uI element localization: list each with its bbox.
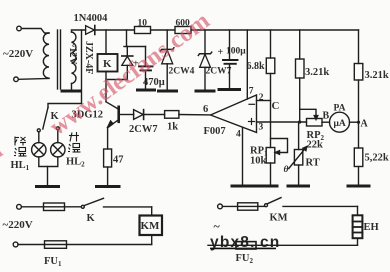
meter PA uA [330, 112, 350, 132]
hanzi 降温 (cool) [14, 137, 27, 157]
terminal T1 (220V top) [17, 26, 22, 31]
wire op-amp pin7 [246, 30, 248, 99]
svg-text:EH: EH [364, 222, 379, 233]
svg-text:10k: 10k [250, 156, 267, 167]
heater EH [357, 206, 359, 215]
capacitor C2 100u [229, 30, 231, 60]
wire AC drop to lamp switch [81, 30, 83, 104]
ground (secondary bottom) [71, 84, 73, 91]
resistor R5 3.21k right [358, 30, 360, 64]
transformer T primary [43, 33, 49, 78]
svg-text:~220V: ~220V [3, 48, 33, 60]
terminal T3 [17, 204, 22, 209]
relay coil K (JZX-4F) [98, 54, 118, 72]
ground (lamps) [37, 185, 59, 188]
svg-text:+: + [218, 47, 224, 58]
switch K1 (lamp selector) [48, 104, 82, 108]
fuse FU2 [236, 242, 256, 249]
wire bottom-left return [67, 244, 152, 246]
svg-text:7: 7 [249, 87, 254, 97]
ground (RP1) [256, 185, 277, 188]
svg-text:6: 6 [203, 104, 208, 115]
capacitor C1 470u [145, 47, 147, 67]
svg-text:10: 10 [138, 19, 148, 29]
svg-text:C: C [272, 100, 280, 112]
svg-text:FU1: FU1 [44, 256, 62, 268]
zener D4 2CW7 [204, 30, 206, 54]
svg-text:3.21k: 3.21k [305, 67, 329, 78]
svg-text:3: 3 [259, 123, 264, 133]
wire flyback bottom [106, 79, 127, 81]
ground (R6) [348, 185, 369, 188]
resistor R6 5.22k [354, 148, 363, 167]
svg-text:A: A [361, 119, 369, 130]
svg-text:JZX-4F: JZX-4F [83, 41, 94, 74]
hanzi 升温 (heat) [68, 132, 81, 152]
wire B node [322, 121, 330, 123]
ground (R7) [97, 185, 120, 188]
svg-text:KM: KM [141, 220, 161, 232]
terminal T5 [218, 204, 223, 209]
wire secondary top [72, 30, 86, 32]
svg-text:2CW7: 2CW7 [129, 124, 158, 135]
wire pin4 to ground [242, 127, 244, 185]
wire base [120, 114, 134, 116]
svg-text:2CW7: 2CW7 [206, 67, 232, 77]
wire K bottom to collector [105, 72, 107, 102]
resistor R3 6.8k [270, 30, 272, 58]
watermark ybx8.cn [210, 234, 280, 251]
svg-text:1N4004: 1N4004 [74, 13, 109, 24]
svg-text:θ: θ [284, 165, 289, 175]
thermistor RT [298, 122, 300, 150]
wire lamp bottoms [39, 157, 58, 167]
wire flyback top net [127, 30, 146, 47]
lamp HL1 [32, 143, 46, 157]
svg-text:~220V: ~220V [3, 219, 33, 231]
resistor R1 10 [135, 27, 151, 34]
svg-text:47: 47 [113, 155, 124, 166]
svg-text:5,22k: 5,22k [365, 153, 389, 164]
terminal T4 [13, 242, 18, 247]
op-amp U1 F007 [211, 95, 257, 133]
transformer core [57, 30, 59, 89]
ground (C1) [138, 89, 155, 92]
svg-text:PA: PA [334, 104, 346, 114]
resistor R8 1k [165, 111, 179, 119]
svg-text:K: K [103, 58, 112, 70]
svg-text:μA: μA [334, 119, 346, 129]
transistor Q1 3DG12 [117, 107, 120, 122]
fuse FU1 [45, 241, 67, 249]
svg-text:3.21k: 3.21k [365, 70, 389, 81]
wire [18, 78, 49, 81]
ground (D4) [196, 90, 214, 93]
wire K relay drop [105, 30, 107, 54]
fuse F2 [238, 203, 258, 210]
switch K2 (relay contact) [81, 205, 84, 208]
wire pin3 [257, 121, 307, 123]
svg-text:1k: 1k [167, 122, 178, 133]
transformer T secondary [72, 32, 76, 84]
diode D1 1N4004 [86, 26, 95, 35]
ground (RT) [288, 185, 309, 188]
svg-text:2CW4: 2CW4 [169, 67, 195, 77]
diode D5 2CW7 [134, 110, 144, 120]
svg-text:www.elecfans.com: www.elecfans.com [0, 137, 8, 271]
svg-text:~12V: ~12V [67, 42, 78, 65]
svg-text:HL1: HL1 [11, 160, 30, 172]
contactor coil KM [151, 207, 153, 216]
wire pin6 [179, 114, 211, 116]
ground (C2) [219, 88, 240, 91]
resistor R7 47 [104, 149, 112, 167]
diode D2 flyback [126, 47, 128, 57]
zener D3 2CW4 [166, 30, 168, 49]
svg-text:2: 2 [259, 93, 264, 103]
resistor R4 3.21k [299, 30, 301, 59]
watermark www.elecfans.com [0, 7, 215, 271]
pot RP2 22k [307, 119, 323, 127]
svg-text:K: K [87, 213, 96, 224]
wire pin2 [257, 100, 271, 102]
fuse F1 [44, 203, 65, 211]
wire A node [350, 121, 359, 123]
terminal T2 (220V bottom) [14, 77, 19, 82]
switch KM1 (contactor contact) [265, 204, 268, 207]
svg-text:4: 4 [236, 130, 241, 140]
svg-text:B: B [323, 111, 330, 122]
svg-text:100μ: 100μ [226, 47, 246, 57]
svg-text:470μ: 470μ [143, 77, 165, 88]
lamp HL2 [51, 143, 65, 157]
svg-text:FU2: FU2 [236, 253, 254, 265]
svg-text:6.8k: 6.8k [247, 61, 266, 72]
svg-text:HL2: HL2 [66, 157, 85, 169]
svg-text:~: ~ [214, 219, 221, 233]
ground (pin4) [232, 185, 253, 188]
svg-text:F007: F007 [204, 126, 226, 137]
wire +V rail [95, 29, 135, 31]
pot RP1 10k [266, 148, 275, 164]
ground (D3) [159, 90, 177, 93]
wire [21, 29, 49, 34]
svg-text:22k: 22k [307, 140, 324, 151]
svg-text:RT: RT [306, 158, 320, 169]
svg-text:KM: KM [270, 213, 288, 224]
resistor R2 600 [175, 27, 191, 34]
wire bottom-right return [208, 244, 358, 246]
